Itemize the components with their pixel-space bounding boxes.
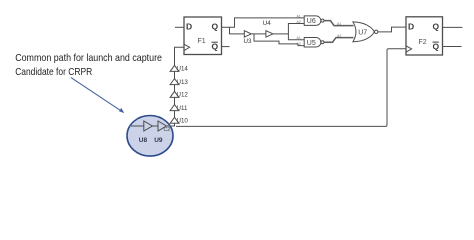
svg-text:U6: U6 [307,18,316,25]
svg-text:U3: U3 [244,38,252,45]
svg-text:U11: U11 [177,105,188,112]
svg-text:U8: U8 [139,137,148,144]
svg-text:U5: U5 [307,40,316,47]
svg-text:Q: Q [212,22,219,32]
svg-text:U4: U4 [263,20,271,27]
svg-text:C2: C2 [164,127,171,133]
svg-text:U10: U10 [177,118,189,125]
svg-text:F1: F1 [198,38,206,45]
svg-text:Q: Q [433,22,440,32]
svg-text:A2: A2 [337,34,341,38]
svg-text:U9: U9 [154,137,163,144]
svg-text:U7: U7 [358,30,367,37]
svg-text:A1: A1 [297,14,301,18]
svg-text:F2: F2 [419,39,427,46]
svg-text:A2: A2 [297,42,301,46]
svg-text:Candidate for CRPR: Candidate for CRPR [15,66,92,78]
svg-text:A1: A1 [337,22,341,26]
svg-text:Common path for launch and cap: Common path for launch and capture [15,52,162,64]
svg-text:D: D [186,22,192,32]
svg-text:U12: U12 [177,92,189,99]
svg-text:A1: A1 [297,36,301,40]
svg-text:D: D [408,22,414,32]
svg-text:U14: U14 [177,66,189,73]
svg-text:A2: A2 [297,20,301,24]
svg-text:Q: Q [433,42,440,52]
svg-text:U13: U13 [177,79,189,86]
svg-text:Q: Q [212,42,219,52]
